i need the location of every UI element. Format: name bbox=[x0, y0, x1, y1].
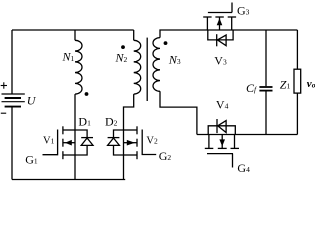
svg-text:D2: D2 bbox=[105, 115, 118, 129]
transistor V1 (MOSFET) bbox=[43, 126, 76, 159]
node dot N1 polarity bbox=[85, 92, 89, 96]
wire N1 stub from top rail bbox=[74, 30, 76, 40]
wire bottom rail primary bbox=[12, 179, 125, 181]
svg-text:V3: V3 bbox=[214, 54, 227, 68]
wire N2 stub from top rail bbox=[133, 30, 135, 40]
svg-text:Cf: Cf bbox=[246, 81, 257, 95]
capacitor Cf bbox=[259, 30, 272, 135]
wire N3 top to secondary top rail bbox=[160, 30, 297, 38]
svg-text:V1: V1 bbox=[43, 136, 55, 147]
wire N2 to V2 drain (jog) bbox=[124, 94, 134, 130]
svg-text:G2: G2 bbox=[159, 149, 172, 163]
node dot N2 polarity bbox=[121, 45, 125, 49]
transformer core bbox=[146, 38, 148, 101]
battery U bbox=[2, 94, 25, 107]
label minus bbox=[1, 112, 6, 114]
node dot N3 polarity bbox=[164, 41, 168, 45]
transistor V2 (MOSFET, mirrored) bbox=[124, 126, 157, 159]
wire secondary bottom rail bbox=[197, 134, 298, 136]
svg-text:G3: G3 bbox=[237, 4, 250, 18]
svg-text:D1: D1 bbox=[78, 115, 91, 129]
svg-text:U: U bbox=[27, 94, 37, 108]
diode D2 bbox=[108, 130, 124, 155]
label + bbox=[1, 85, 7, 87]
svg-text:N3: N3 bbox=[168, 53, 181, 67]
wire top rail primary bbox=[12, 29, 134, 31]
svg-text:G4: G4 bbox=[237, 161, 250, 175]
wire N3 bottom jog to secondary bottom rail bbox=[160, 91, 197, 134]
winding N2 bbox=[134, 40, 141, 94]
svg-text:V2: V2 bbox=[146, 136, 158, 147]
transistor V4 (MOSFET, horizontal, mirrored) bbox=[205, 135, 239, 168]
transistor V3 (MOSFET, horizontal) bbox=[203, 3, 236, 31]
wire N1 to V1 drain bbox=[74, 94, 76, 130]
impedance Z1 bbox=[294, 30, 301, 135]
wire V1 source to rail bbox=[74, 155, 76, 180]
wire left battery branch bottom bbox=[11, 107, 13, 179]
diode D1 bbox=[75, 130, 93, 155]
wire V2 source to rail bbox=[123, 155, 125, 180]
wire left battery branch top bbox=[11, 30, 13, 94]
svg-text:G1: G1 bbox=[25, 152, 38, 166]
svg-text:vo: vo bbox=[307, 78, 315, 90]
winding N3 bbox=[153, 38, 160, 92]
svg-text:Z1: Z1 bbox=[280, 78, 291, 92]
diode of V3 bbox=[208, 30, 233, 46]
svg-text:N2: N2 bbox=[115, 50, 128, 64]
svg-text:V4: V4 bbox=[216, 98, 229, 112]
winding N1 bbox=[75, 40, 82, 94]
diode of V4 bbox=[208, 119, 235, 135]
svg-text:N1: N1 bbox=[62, 50, 75, 64]
